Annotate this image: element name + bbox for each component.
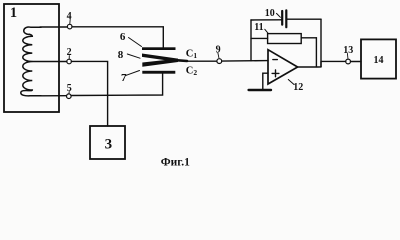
feedback resistor R11 (box)	[268, 34, 302, 44]
node 13 (circle)	[346, 59, 351, 64]
svg-text:12: 12	[293, 82, 303, 93]
leader of label 13	[346, 54, 349, 59]
inductor coil L	[21, 27, 41, 96]
feedback capacitor C10 right plate	[285, 10, 287, 27]
svg-text:3: 3	[105, 136, 113, 152]
box 14 (output block)	[361, 39, 396, 78]
wire to feedback resistor 11	[251, 37, 268, 39]
leader of label 5	[68, 91, 70, 93]
wire: coil bottom to terminal 5 and to capacitor bottom-plate feed	[41, 74, 163, 96]
wire: movable electrode to node 9 and op-amp inverting input	[177, 59, 268, 62]
wire from capacitor 10 to right vertical	[286, 18, 321, 20]
leader of label 4	[69, 19, 71, 24]
feedback left vertical wire	[250, 20, 252, 61]
svg-text:C2: C2	[186, 65, 198, 77]
box 1 (sensor housing)	[4, 4, 59, 112]
svg-text:13: 13	[343, 45, 353, 56]
svg-text:7: 7	[121, 72, 127, 84]
terminal 5 (circle)	[67, 94, 72, 99]
capacitor movable electrode lower blade	[142, 59, 178, 67]
leader of label 2	[68, 56, 70, 59]
svg-text:11: 11	[254, 22, 263, 33]
wire: output line to node 13 and box 14	[321, 61, 361, 67]
svg-text:1: 1	[10, 5, 17, 21]
leader of label 10	[277, 13, 281, 17]
svg-text:4: 4	[67, 11, 72, 22]
terminal 2 (circle)	[67, 59, 72, 64]
ground bar	[249, 89, 271, 91]
node 9 (circle)	[217, 59, 222, 64]
svg-text:14: 14	[374, 55, 384, 66]
feedback capacitor C10 left plate	[281, 11, 283, 25]
leader of label 6	[129, 38, 142, 47]
leader of label 8	[127, 54, 140, 58]
op-amp plus sign	[272, 70, 279, 77]
svg-text:5: 5	[67, 83, 72, 94]
svg-text:10: 10	[265, 8, 275, 19]
svg-text:Фиг.1: Фиг.1	[161, 156, 190, 168]
wire to feedback capacitor 10	[251, 19, 281, 21]
svg-text:C1: C1	[186, 48, 198, 60]
leader of label 12	[288, 80, 294, 85]
svg-text:2: 2	[67, 47, 72, 58]
feedback right vertical (cap branch)	[320, 19, 322, 67]
box 3 (excitation block)	[90, 126, 125, 159]
wire: non-inverting input to ground	[263, 73, 268, 89]
feedback right vertical (resistor branch)	[315, 38, 317, 67]
op-amp U12 (triangle)	[268, 50, 298, 84]
wire from resistor 11 to right vertical	[301, 37, 316, 39]
svg-text:9: 9	[216, 45, 221, 56]
leader of label 7	[125, 71, 139, 76]
capacitor movable electrode upper blade (8)	[142, 54, 178, 63]
wire: coil top to terminal 4 and to capacitor top-plate feed	[40, 27, 163, 48]
leader of label 11	[265, 29, 268, 33]
svg-text:8: 8	[118, 49, 124, 61]
leader of label 9	[218, 53, 219, 58]
svg-text:6: 6	[120, 31, 126, 43]
wire: coil mid tap to terminal 2 and down to block 3	[32, 61, 107, 126]
terminal 4 (circle)	[67, 24, 72, 29]
wire: op-amp output	[298, 66, 321, 68]
capacitor top fixed plate (6)	[142, 47, 176, 50]
capacitor bottom fixed plate (7)	[142, 71, 175, 74]
op-amp minus sign	[273, 59, 277, 61]
